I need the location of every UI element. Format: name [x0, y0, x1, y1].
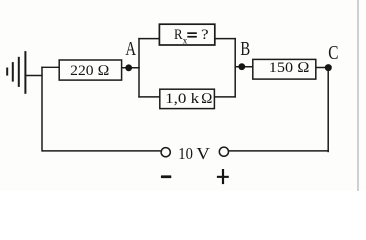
wire bottom right segment — [229, 150, 329, 152]
wire ground to left rail — [26, 75, 43, 77]
value label Rx = ? — [174, 27, 209, 45]
svg-text:C: C — [328, 43, 338, 64]
resistor 150 ohm box — [253, 59, 316, 79]
wire resistor 220 to node A — [122, 67, 140, 69]
svg-text:1,0 k: 1,0 k — [165, 91, 200, 107]
node A junction dot — [125, 64, 132, 71]
border gray line — [357, 0, 358, 191]
wire parallel-left vertical — [138, 38, 140, 98]
node C junction dot — [325, 64, 332, 71]
svg-text:x: x — [183, 35, 188, 45]
resistor R 220 ohm box — [59, 60, 121, 80]
wire node B stub — [235, 66, 253, 68]
wire parallel-right vertical — [234, 38, 236, 98]
battery terminal plus circle — [219, 147, 228, 156]
svg-text:Ω: Ω — [201, 91, 213, 107]
wire bottom branch left — [138, 96, 160, 98]
svg-text:R: R — [174, 27, 183, 43]
svg-text:?: ? — [201, 27, 209, 43]
wire left rail vertical — [41, 67, 43, 152]
wire top branch right — [215, 38, 236, 40]
svg-text:A: A — [125, 39, 136, 60]
resistor Rx box — [159, 24, 214, 45]
wire resistor 150 to node C — [316, 67, 329, 69]
battery minus sign — [161, 175, 171, 178]
node B junction dot — [238, 63, 245, 70]
wire bottom left segment — [42, 150, 161, 152]
svg-text:220 Ω: 220 Ω — [70, 63, 109, 79]
svg-text:V: V — [196, 144, 210, 163]
ground — [7, 51, 25, 94]
svg-text:150 Ω: 150 Ω — [269, 60, 310, 76]
wire right rail vertical — [327, 68, 329, 153]
wire top branch left — [138, 38, 159, 40]
resistor 1,0 kOhm box — [160, 89, 215, 108]
svg-text:B: B — [240, 39, 250, 60]
wire left rail to resistor 220 — [41, 66, 59, 68]
wire bottom branch right — [214, 96, 236, 98]
battery plus sign — [217, 169, 229, 184]
svg-text:10: 10 — [178, 144, 193, 163]
battery terminal minus circle — [161, 148, 170, 157]
